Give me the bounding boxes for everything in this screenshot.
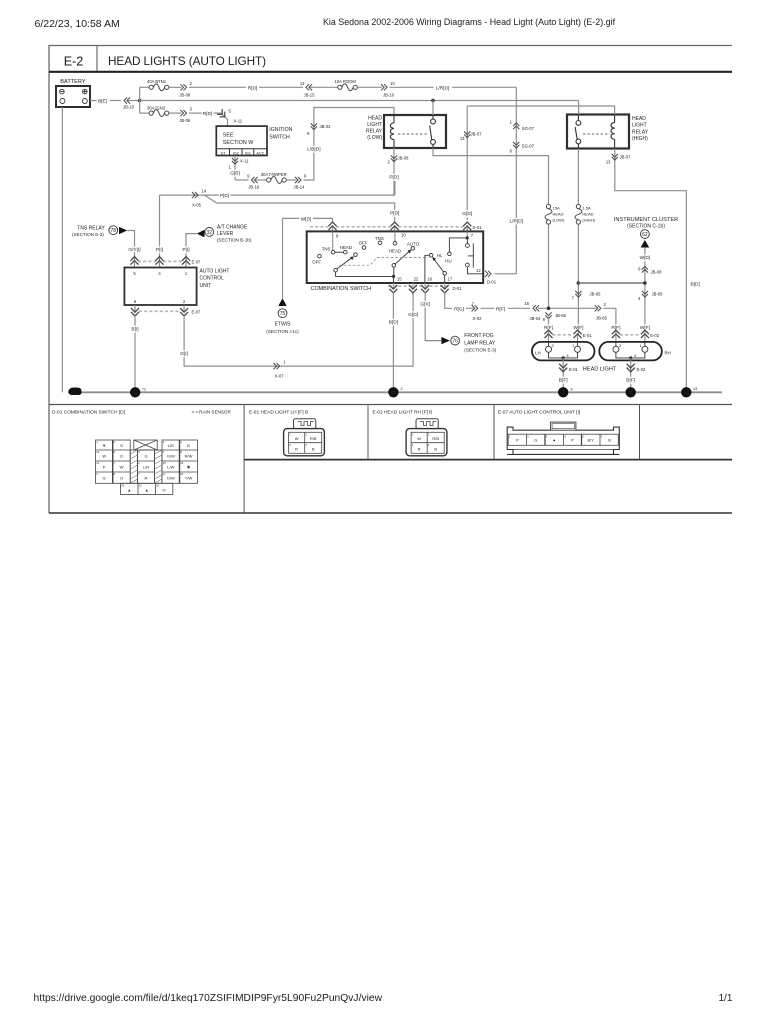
svg-text:UNIT: UNIT [200,283,212,289]
svg-text:1/1: 1/1 [719,993,733,1004]
wire B[D] pin15 to ground 14 [392,291,394,392]
svg-text:R/B: R/B [432,436,439,441]
svg-text:E-07 AUTO LIGHT CONTROL UNIT [: E-07 AUTO LIGHT CONTROL UNIT [I] [498,409,580,415]
svg-text:SG-07: SG-07 [522,126,535,131]
relay K1 head light relay (low) [366,115,446,148]
svg-text:O/W: O/W [167,475,175,480]
svg-text:https://drive.google.com/file/: https://drive.google.com/file/d/1keq170Z… [34,993,383,1004]
svg-text:R[F]: R[F] [496,306,505,312]
svg-text:13: 13 [606,160,611,165]
wire ignition IG2 output [234,156,236,181]
svg-text:10: 10 [401,232,406,237]
switch dimmer HL contact [429,252,451,264]
svg-text:R[D]: R[D] [203,111,213,117]
svg-text:CONTROL: CONTROL [200,276,225,282]
TNS relay reference 78 [72,226,127,238]
svg-text:AUTO: AUTO [407,242,420,247]
svg-text:HEAD LIGHTS (AUTO LIGHT): HEAD LIGHTS (AUTO LIGHT) [108,54,266,68]
connector JB-15 pin 13 [306,84,312,90]
svg-text:3: 3 [619,344,621,348]
svg-text:E-02: E-02 [650,333,660,338]
switch auto group contacts [389,242,420,254]
wire battery B[E] feed [90,100,97,102]
wire TNS rail to pin 15 [336,267,394,283]
svg-text:B[F]: B[F] [559,377,568,383]
svg-text:3: 3 [552,344,554,348]
svg-text:75: 75 [280,311,286,317]
wire R[D] row1 [189,86,246,88]
svg-text:W[D]: W[D] [301,217,312,223]
svg-text:A/T CHANGE: A/T CHANGE [217,224,248,230]
svg-text:R: R [418,446,421,451]
svg-text:JB-10: JB-10 [123,105,135,110]
linkage dashes [339,258,428,266]
svg-text:G[D]: G[D] [462,211,472,217]
svg-text:1.5A: 1.5A [582,206,591,211]
svg-text:JB-65: JB-65 [555,313,567,318]
switch dimmer wiper arm pin 17 [432,257,453,283]
svg-text:B[D]: B[D] [389,319,398,325]
svg-text:JB-15: JB-15 [304,92,316,97]
connector JB-08 pin 6 [642,266,648,272]
instrument cluster reference 62 [614,217,678,248]
svg-text:LIGHT: LIGHT [367,122,382,128]
svg-text:R/W: R/W [185,453,193,458]
svg-text:E-02 HEAD LIGHT RH [F] B: E-02 HEAD LIGHT RH [F] B [373,409,433,415]
svg-text:R[G]: R[G] [454,306,464,312]
svg-text:IGNITION: IGNITION [269,127,292,133]
svg-text:X-07: X-07 [275,373,285,378]
svg-text:5: 5 [562,391,565,397]
connector JB-65 pin 8 [545,312,551,318]
svg-text:W[D]: W[D] [640,255,651,261]
svg-text:(HIGH): (HIGH) [582,218,595,223]
svg-text:B: B [434,446,437,451]
head light RH lamp [599,342,671,361]
svg-text:(SECTION E-3): (SECTION E-3) [464,348,496,353]
connector JB-65 pin 2 [595,305,601,311]
wire HL contact to pin 16 [425,255,429,283]
svg-text:HEAD: HEAD [340,245,352,250]
svg-text:W: W [120,464,124,469]
svg-text:INSTRUMENT CLUSTER: INSTRUMENT CLUSTER [614,217,678,223]
svg-text:(HIGH): (HIGH) [632,136,648,142]
svg-text:JB-32: JB-32 [320,124,332,129]
ground 14 pin 2 [388,387,398,397]
svg-text:(LOW): (LOW) [553,218,565,223]
wire G[D] from dimmer to relay high coil [466,106,468,220]
switch auto wiper arm [392,250,411,268]
svg-text:FRONT FOG: FRONT FOG [464,333,493,339]
ground 14 pin 13 [681,387,691,397]
svg-text:JB-07: JB-07 [620,155,632,160]
connector row E-07 bottom [131,305,201,316]
connector JB-04 pin 16 [533,305,539,311]
wire RH lamp ground [630,358,632,392]
switch TNS wiper arm [334,256,354,272]
connector SG-07 pin 1 [513,123,519,129]
svg-text:JB-08: JB-08 [398,156,410,161]
svg-text:O: O [120,453,123,458]
svg-text:HU: HU [445,259,451,264]
connector D-01 pin 12 right [485,271,491,277]
wire L/B[D] up to relay low coil [304,108,395,181]
wire to fuse junction [128,100,140,102]
svg-text:G[B]: G[B] [230,170,240,176]
node W[F] branch [577,281,581,285]
svg-text:P: P [571,438,574,443]
svg-text:G[I]: G[I] [180,351,188,357]
svg-text:JB-65: JB-65 [596,315,608,320]
svg-text:Kia Sedona 2002-2006 Wiring Di: Kia Sedona 2002-2006 Wiring Diagrams - H… [323,17,616,27]
connector X-11 pin 1 lower [232,158,238,164]
svg-text:HEAD: HEAD [582,212,593,217]
svg-text:B[I]: B[I] [131,327,138,333]
svg-text:O: O [120,475,123,480]
connector JB-06 pin 3 [180,110,186,116]
svg-text:G: G [74,391,78,396]
connector JB-07 pin 13 dimmer [464,131,470,137]
svg-text:OFF: OFF [312,259,321,264]
svg-text:16: 16 [427,276,432,281]
svg-text:40A BTN1: 40A BTN1 [147,79,167,84]
svg-text:22: 22 [414,276,419,281]
svg-text:COMBINATION SWITCH: COMBINATION SWITCH [311,286,371,292]
front fog lamp relay reference 76 [441,333,496,352]
connector E-01 drawing [284,419,325,456]
svg-text:13: 13 [693,387,697,391]
wire B[I] auto light ground [134,314,136,392]
svg-text:13: 13 [300,81,305,86]
connector JB-08 pin 2 [180,84,186,90]
svg-text:HEAD: HEAD [368,116,382,122]
node pin 7 [466,236,469,239]
node W[F] instrument junction [643,281,647,285]
svg-text:32: 32 [207,230,213,236]
svg-text:JB-07: JB-07 [471,132,483,137]
svg-text:SEE: SEE [223,133,234,139]
svg-text:X-02: X-02 [473,316,483,321]
svg-text:(SECTION C-1b): (SECTION C-1b) [627,224,665,230]
svg-text:O: O [163,487,166,492]
svg-text:▲: ▲ [127,487,131,492]
connector X-02 pin 7 [472,305,478,311]
wire battery main feed row2 to relays [140,100,433,102]
svg-text:D-01: D-01 [487,279,497,284]
combination switch S1 [307,231,484,292]
wire R[D] row3 [189,112,202,114]
frame outer border [49,46,732,514]
svg-text:L/R[D]: L/R[D] [509,218,523,224]
svg-text:L/R: L/R [168,443,174,448]
connector JB-65 pin 7 [575,291,581,297]
svg-text:12: 12 [476,268,481,273]
svg-text:E-01: E-01 [569,367,579,372]
wire to F/WIPER fuse [235,179,249,181]
svg-text:▼: ▼ [102,443,106,448]
svg-text:62: 62 [642,232,648,238]
svg-text:OFF: OFF [359,241,368,246]
svg-text:14: 14 [684,391,690,396]
svg-text:G: G [103,475,106,480]
svg-text:B[E]: B[E] [98,99,107,105]
svg-text:IG1: IG1 [245,151,251,155]
svg-text:TNS: TNS [322,246,331,251]
svg-text:W: W [417,436,421,441]
svg-text:15A: 15A [553,206,560,211]
node pin 15 [392,275,395,278]
connector table band [49,405,732,514]
wire G[X] pin16 to fog relay [425,291,441,340]
node R[F] junction [547,307,551,311]
connector X-11 pin 5 [217,109,228,120]
svg-text:1: 1 [639,344,641,348]
svg-text:P[D]: P[D] [390,211,399,217]
ground 5 pin 4 [558,387,568,397]
relay K2 head light relay (high) [567,115,649,149]
switch passing contacts [466,238,484,274]
svg-text:B: B [312,446,315,451]
svg-text:L/B[D]: L/B[D] [307,146,320,152]
ground bus [68,391,722,393]
svg-text:14: 14 [202,189,207,194]
svg-text:B[F]: B[F] [626,377,635,383]
svg-text:E-02: E-02 [637,367,647,372]
wire relay low switch feed [432,101,434,116]
wire R[F] pin17 to head lights [445,291,616,334]
svg-text:HEAD: HEAD [553,212,564,217]
connector E-07 drawing [507,422,619,454]
svg-text:16: 16 [524,301,529,306]
svg-text:LEVER: LEVER [217,231,234,237]
connector JB-08 pin 2 relay low [391,155,397,161]
svg-text:4: 4 [567,354,569,358]
svg-text:R: R [295,446,298,451]
ground symbol G [68,388,81,397]
svg-text:G: G [534,438,537,443]
svg-text:G: G [144,453,147,458]
wire P[D] line A [160,181,395,195]
connector SG-07 pin 6 [513,142,519,148]
connector JB-16 pin 9 [251,177,257,183]
svg-text:LIGHT: LIGHT [632,123,647,129]
wire A/T lever to auto light pin 1 [186,234,197,261]
svg-text:RELAY: RELAY [366,129,383,135]
wire LH lamp ground [562,358,564,392]
svg-text:JB-16: JB-16 [383,92,395,97]
pin 8 stub W[D] [332,231,334,250]
svg-text:B/Y: B/Y [587,438,594,443]
svg-text:P[I]: P[I] [156,247,163,253]
pin 10 stub P[D] [394,231,396,241]
svg-text:E-2: E-2 [64,55,84,69]
connector JB-14 pin 6 [295,177,301,183]
ground 8 pin 71 [130,387,140,397]
svg-text:2: 2 [401,387,403,391]
svg-text:(SECTION B-1b): (SECTION B-1b) [217,238,252,243]
svg-text:ETWIS: ETWIS [275,322,291,328]
svg-text:14: 14 [391,391,397,396]
svg-text:SECTION W: SECTION W [223,140,254,146]
wire P[I] to auto light pin 4 [159,195,161,261]
svg-text:D-01: D-01 [473,225,483,230]
connector JB-07 pin 13 relay high [612,154,618,160]
D-01 grid hatching [130,450,162,483]
fuse 1.5A HEAD (HIGH) [575,149,596,225]
connector D-01 pin grid [96,440,198,495]
svg-text:P: P [103,464,106,469]
connector row D-01 top [310,222,482,231]
svg-text:10A ROOM: 10A ROOM [335,79,357,84]
svg-text:B[D]: B[D] [691,281,700,287]
wire W[D] instrument cluster drop [644,248,646,335]
frame header bottom thick rule [49,71,732,73]
wire P[D] line B to combination switch [205,195,395,221]
svg-text:TNS: TNS [375,236,384,241]
svg-text:Y/W: Y/W [185,475,193,480]
wire fuse branch vertical [139,87,141,113]
svg-text:G/Y[I]: G/Y[I] [128,247,140,253]
D-01 grid cell labels [102,443,192,493]
svg-text:E-01 HEAD LIGHT LH [F] B: E-01 HEAD LIGHT LH [F] B [249,409,308,415]
wire relay high switch feed from R[D] [578,101,580,115]
svg-text:SG-07: SG-07 [522,144,535,149]
connector JB-05 pin 4 [642,291,648,297]
svg-text:X-11: X-11 [234,119,243,124]
svg-text:TNS RELAY: TNS RELAY [77,226,105,232]
svg-text:« » RAIN SENSOR: « » RAIN SENSOR [192,409,232,414]
svg-text:W: W [295,436,299,441]
svg-text:IG2: IG2 [233,151,239,155]
svg-text:P[D]: P[D] [220,193,229,199]
svg-text:X-11: X-11 [240,159,249,164]
svg-text:RH: RH [665,350,671,355]
ignition switch box SEE SECTION W [216,126,267,155]
switch TNS group contacts [312,236,384,265]
svg-text:HL: HL [437,253,443,258]
wire HU contact to pin 7 node [449,238,467,252]
wire L/R[D] to right [390,86,434,88]
battery B1 [56,79,90,107]
wire 1.5A fuse down to W[F] node [577,225,579,335]
fuse 30A IGN2 [140,105,182,116]
svg-text:D-01 COMBINATION SWITCH [D]: D-01 COMBINATION SWITCH [D] [52,409,125,415]
node relay low feed [431,99,435,103]
svg-text:AUTO LIGHT: AUTO LIGHT [200,268,230,274]
ETWIS reference 75 [266,298,299,334]
svg-text:G: G [120,443,123,448]
svg-text:G/W: G/W [167,453,175,458]
svg-text:B: B [187,443,190,448]
svg-text:R: R [145,475,148,480]
svg-text:6/22/23, 10:58 AM: 6/22/23, 10:58 AM [35,18,120,30]
svg-text:4: 4 [634,354,636,358]
wire G[I] auto light to comb switch pin 22 [184,293,413,367]
wire relay high coil feed G[D] left [467,106,614,115]
svg-text:17: 17 [448,276,453,281]
svg-text:LAMP RELAY: LAMP RELAY [464,340,496,346]
svg-text:LH: LH [535,350,541,355]
pin 7 stub G[D] [466,231,468,238]
svg-text:BATTERY: BATTERY [60,79,86,85]
svg-text:JB-16: JB-16 [248,185,260,190]
svg-text:R/B: R/B [310,436,317,441]
svg-text:2: 2 [629,391,632,397]
svg-text:13: 13 [460,136,465,141]
wire W[D] ETWIS to comb switch pin 8 [283,218,333,298]
svg-text:P[D]: P[D] [389,175,398,181]
connector X-07 pin 1 [274,363,280,369]
wire relay low output to 15A fuse [433,148,549,204]
svg-text:8: 8 [134,391,137,397]
svg-text:76: 76 [452,339,458,345]
connector E-02 below lamp [627,364,635,372]
svg-text:JB-05: JB-05 [652,291,664,296]
ground 2 [626,387,636,397]
svg-text:15: 15 [397,276,402,281]
head light LH lamp [532,342,595,361]
svg-text:JB-14: JB-14 [294,185,306,190]
svg-text:P[I]: P[I] [182,247,189,253]
svg-text:L/R[D]: L/R[D] [436,85,450,91]
svg-text:L/R: L/R [143,464,149,469]
connector row E-01 [544,330,592,342]
svg-text:G[D]: G[D] [408,312,418,318]
svg-text:E-07: E-07 [192,260,202,265]
svg-text:1: 1 [572,344,574,348]
svg-text:RELAY: RELAY [632,129,649,135]
wire W[F] branch to instrument line [578,282,645,284]
svg-text:JB-65: JB-65 [590,291,602,296]
D-01 grid tiny pin numbers [96,440,183,487]
node battery feed junction [138,99,142,103]
fuse 10A ROOM [310,79,382,91]
connector X-05 pin 14 [192,192,198,198]
svg-text:SWITCH: SWITCH [269,134,290,140]
svg-text:ST: ST [220,151,226,155]
svg-text:D-01: D-01 [453,286,463,291]
svg-text:HEAD LIGHT: HEAD LIGHT [583,366,617,372]
svg-text:JB-08: JB-08 [651,270,663,275]
svg-text:X-05: X-05 [192,203,202,208]
svg-text:HEAD: HEAD [389,249,401,254]
svg-text:10: 10 [390,81,395,86]
svg-text:ACC: ACC [256,151,264,155]
svg-text:71: 71 [142,388,146,392]
svg-text:L/W: L/W [167,464,174,469]
svg-text:B: B [608,438,611,443]
wire TNS to auto light pin 5 [127,231,134,262]
fuse 15A HEAD (LOW) [545,204,565,224]
svg-text:▲: ▲ [145,487,149,492]
svg-text:(SECTION E-3): (SECTION E-3) [72,232,104,237]
A/T change lever reference 32 [197,224,252,242]
svg-text:W: W [102,453,106,458]
connector row E-07 top [130,257,201,268]
svg-text:E-07: E-07 [192,310,202,315]
svg-text:(LOW): (LOW) [367,135,382,141]
svg-text:4: 4 [571,388,573,392]
connector E-01 below lamp [559,364,567,372]
connector row E-02 [612,330,660,342]
connector row D-01 bottom [388,283,462,293]
svg-text:JB-06: JB-06 [179,118,191,123]
svg-text:(SECTION I-1c): (SECTION I-1c) [266,329,299,334]
wire R[F] LH drop [548,317,550,334]
svg-text:78: 78 [111,228,117,234]
svg-text:HEAD: HEAD [632,116,646,122]
svg-text:JB-08: JB-08 [179,92,191,97]
